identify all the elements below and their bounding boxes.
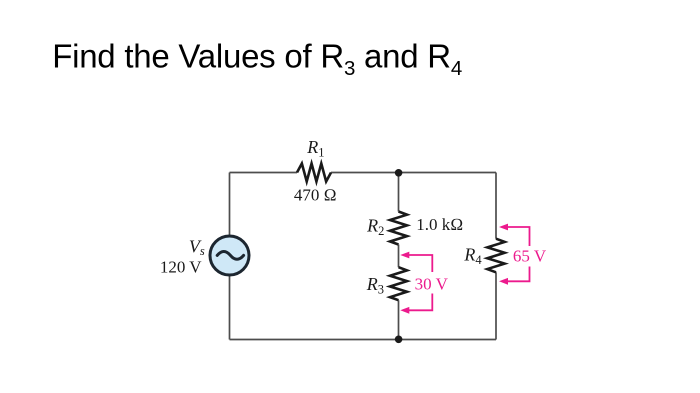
source Vs (AC source circle) [210, 236, 249, 275]
svg-text:30 V: 30 V [415, 274, 449, 293]
resistor R4 [487, 239, 504, 273]
node B (bottom junction dot) [395, 336, 403, 344]
wire middle branch [398, 173, 400, 340]
wire left [229, 173, 231, 340]
svg-text:65 V: 65 V [513, 247, 547, 266]
svg-text:120 V: 120 V [160, 258, 202, 277]
wire bottom [230, 339, 497, 341]
resistor R2 [390, 212, 407, 245]
svg-text:Find the Values of R3 and R4: Find the Values of R3 and R4 [52, 37, 462, 80]
svg-text:470 Ω: 470 Ω [294, 185, 337, 204]
node A (top junction dot) [395, 169, 403, 177]
wire right [495, 173, 497, 340]
resistor R3 [390, 267, 407, 300]
annotation 65 V bracket [499, 224, 530, 285]
annotation 30 V bracket [400, 252, 432, 314]
svg-text:R4: R4 [463, 245, 482, 267]
svg-text:R2: R2 [366, 215, 384, 237]
wire top [230, 172, 497, 174]
svg-text:1.0 kΩ: 1.0 kΩ [416, 215, 463, 234]
resistor R1 [297, 164, 331, 182]
svg-text:R1: R1 [306, 137, 324, 159]
svg-text:R3: R3 [366, 274, 384, 296]
svg-text:Vs: Vs [189, 236, 205, 258]
